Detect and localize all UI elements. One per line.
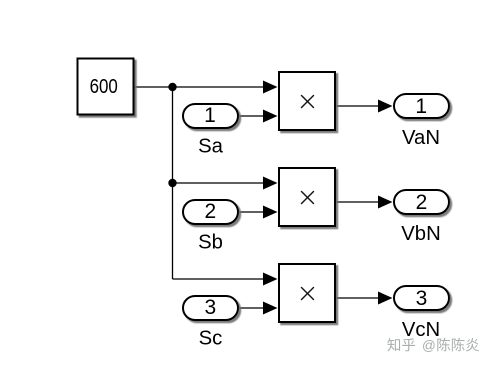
svg-text:3: 3	[204, 296, 216, 319]
svg-text:VbN: VbN	[401, 223, 440, 245]
svg-text:3: 3	[416, 287, 428, 310]
svg-text:600: 600	[90, 76, 118, 98]
svg-text:VaN: VaN	[402, 127, 440, 149]
svg-text:1: 1	[415, 95, 427, 118]
svg-text:Sb: Sb	[198, 232, 223, 254]
svg-text:Sc: Sc	[199, 328, 223, 350]
svg-text:2: 2	[204, 200, 216, 223]
svg-text:@: @	[422, 338, 436, 353]
svg-text:Sa: Sa	[198, 136, 224, 158]
svg-text:2: 2	[416, 191, 428, 214]
svg-text:1: 1	[204, 104, 216, 127]
